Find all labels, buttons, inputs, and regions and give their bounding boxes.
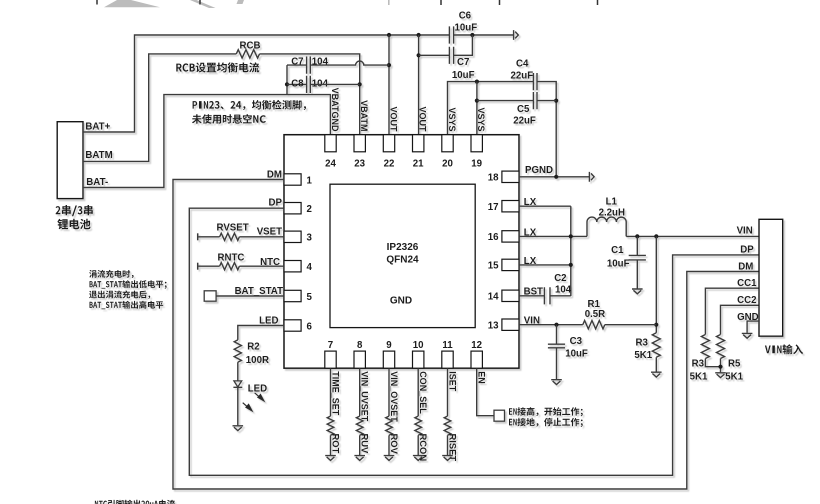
ground (PGND) [589, 172, 594, 182]
wire C3 bottom to ground [556, 348, 558, 379]
wire RCB to pin23 VBATM [260, 54, 360, 135]
wire C1 top [636, 236, 638, 255]
capacitor C1 10uF [629, 255, 646, 260]
svg-text:C1: C1 [611, 245, 624, 256]
node C6/C7 right junction [470, 33, 474, 37]
resistor R5 5K1 (CC2) [717, 335, 725, 359]
svg-text:ROV: ROV [389, 434, 400, 455]
wire pin6 LED down to R2 [238, 326, 284, 340]
svg-text:RNTC: RNTC [218, 253, 245, 264]
wire pin9 down [388, 368, 390, 416]
terminal RVSET left [197, 233, 199, 240]
wire L1 to VIN connector [626, 235, 759, 237]
resistor ROT [327, 416, 334, 435]
pin 22 box [383, 135, 394, 152]
wire R3 to ground [655, 357, 657, 371]
ground (VOUT decoupling) [514, 30, 519, 40]
svg-text:RUV: RUV [360, 434, 371, 455]
wire RNTC left segment [198, 265, 219, 267]
svg-text:R2: R2 [247, 342, 259, 353]
pin 24 box [325, 135, 336, 152]
wire RCON to ground [417, 435, 419, 455]
VIN input connector J2 [759, 219, 783, 336]
svg-text:C4: C4 [516, 59, 529, 70]
ground (RUV) [354, 456, 365, 461]
pin 23 box [354, 135, 365, 152]
wire ROT to ground [330, 435, 332, 455]
wire LX bus vertical [570, 206, 572, 296]
svg-text:R3: R3 [692, 358, 705, 369]
wire pin14 BST to C2 [519, 295, 544, 297]
ground (R3) [651, 372, 662, 377]
node VOUT junction at pin22 riser [387, 33, 391, 37]
capacitor C3 10uF [548, 344, 565, 348]
svg-text:BATM: BATM [85, 150, 112, 161]
pin 17 box [502, 201, 519, 212]
pin 15 box [502, 259, 519, 270]
ground (CC divider) [715, 373, 726, 378]
wire BAT- riser to pin24 VBATGND [83, 95, 330, 188]
capacitor C8 104 [307, 76, 311, 93]
svg-text:VSYS: VSYS [447, 107, 457, 131]
wire pin22 VOUT riser [388, 35, 390, 135]
resistor RNTC [220, 263, 240, 270]
ground (RCON) [413, 456, 424, 461]
wire pin8 down [359, 368, 361, 416]
wire VIN feed down to R1 node [655, 236, 657, 332]
svg-text:BAT+: BAT+ [85, 122, 110, 133]
node C3 tap [554, 323, 558, 327]
node pin19 riser top junction [475, 80, 479, 84]
label 锂电池 [57, 219, 90, 230]
svg-text:11: 11 [442, 340, 453, 351]
svg-text:C3: C3 [570, 336, 583, 347]
node VIN node junction [654, 323, 658, 327]
node C5 tap on pin19 riser [475, 99, 479, 103]
wire pin7 down [330, 368, 332, 416]
resistor R3 5K1 (CC1) [701, 335, 709, 359]
svg-text:ISET: ISET [448, 371, 458, 392]
wire C8 left [287, 83, 307, 85]
svg-text:TIME_SET: TIME_SET [331, 371, 341, 416]
svg-text:20: 20 [442, 159, 453, 170]
wire C2 right up to LX bus [550, 295, 571, 297]
capacitor C4 22uF [533, 73, 537, 90]
ground (C1) [632, 289, 643, 294]
capacitor C2 104 [544, 287, 550, 304]
svg-text:C2: C2 [554, 273, 566, 284]
svg-text:QFN24: QFN24 [386, 255, 419, 266]
svg-text:BAT_STAT: BAT_STAT [235, 286, 284, 297]
capacitor C5 22uF [533, 92, 537, 109]
wire pin21 VOUT riser [418, 35, 420, 135]
wire pin16 LX to L1 [519, 235, 587, 237]
svg-text:EN: EN [477, 371, 487, 384]
wire pin17 LX [519, 205, 571, 207]
wire C3 top [556, 325, 558, 345]
svg-text:22: 22 [384, 159, 395, 170]
wire RNTC to pin4 NTC [239, 265, 284, 267]
svg-text:RCON: RCON [418, 434, 429, 462]
ground (ROT) [325, 456, 336, 461]
wire R1 to VIN node [605, 324, 657, 326]
svg-text:19: 19 [471, 159, 482, 170]
svg-text:10uF: 10uF [565, 348, 588, 359]
wire DP loop pin2 to VIN connector DP [189, 208, 759, 475]
wire R3 bottom to common [705, 359, 720, 367]
svg-text:CC1: CC1 [737, 278, 757, 289]
wire RVSET left segment [198, 236, 219, 238]
pin 16 box [502, 231, 519, 242]
note PIN23、24，均衡检测脚， line1 [193, 100, 306, 110]
svg-text:IP2326: IP2326 [387, 242, 419, 253]
svg-text:2: 2 [307, 204, 312, 215]
svg-text:VBATGND: VBATGND [330, 88, 340, 132]
resistor R2 100R [234, 340, 241, 362]
svg-text:CC2: CC2 [737, 295, 756, 306]
svg-text:VIN: VIN [737, 225, 753, 236]
svg-text:22uF: 22uF [513, 116, 536, 127]
svg-text:23: 23 [354, 159, 365, 170]
svg-text:VOUT: VOUT [389, 106, 399, 132]
svg-text:R5: R5 [728, 358, 741, 369]
pin 11 box [442, 351, 453, 368]
svg-text:7: 7 [328, 340, 333, 351]
svg-text:C7: C7 [291, 56, 303, 67]
wire pin12 EN down to terminal [477, 368, 494, 416]
pin 4 box [284, 261, 301, 272]
wire C7/C8 left vertical to VBATGND [286, 65, 288, 95]
svg-text:10uF: 10uF [455, 23, 478, 34]
wire C6 right to ground [454, 34, 514, 36]
svg-text:BST: BST [524, 287, 543, 298]
pin 21 box [413, 135, 424, 152]
note 未使用时悬空NC line2 [192, 114, 266, 124]
note EN接地，停止工作； line2 [509, 418, 583, 427]
svg-text:5K1: 5K1 [690, 371, 708, 382]
node VIN feed tap [654, 234, 658, 238]
svg-text:0.5R: 0.5R [585, 309, 605, 320]
svg-text:VOUT: VOUT [418, 106, 428, 132]
note NTC引脚输出20uA电流 (cut off) [95, 500, 175, 504]
svg-text:2.2uH: 2.2uH [599, 208, 625, 219]
svg-text:LX: LX [524, 227, 537, 238]
svg-text:22uF: 22uF [511, 71, 534, 82]
svg-text:C5: C5 [517, 104, 530, 115]
svg-text:CON_SEL: CON_SEL [418, 371, 428, 414]
svg-text:10: 10 [413, 340, 424, 351]
svg-text:C7: C7 [457, 57, 469, 68]
wire C5 right [537, 100, 556, 102]
wire R5 bottom to ground [720, 359, 722, 373]
wire C5 left from pin19 riser [477, 100, 534, 102]
LED diode D1 [233, 381, 242, 387]
wire RUV to ground [359, 435, 361, 455]
pin 19 box [471, 135, 482, 152]
pin 9 box [383, 351, 394, 368]
pin 1 box [284, 174, 301, 185]
svg-text:4: 4 [307, 262, 313, 273]
note 退出涓流充电后， line3 [89, 291, 150, 299]
wire C4 right down to PGND rail [537, 82, 556, 177]
svg-text:18: 18 [488, 173, 499, 184]
pin 14 box [502, 290, 519, 301]
resistor RISET [444, 416, 451, 435]
ground (connector GND) [742, 333, 753, 338]
svg-text:24: 24 [325, 159, 336, 170]
op-amp U1 IP2326 QFN24 outline [284, 135, 519, 369]
node LX junction pin15 [569, 263, 573, 267]
ground (LED) [233, 426, 244, 431]
capacitor C7 10uF [449, 47, 453, 64]
node C8 tap on pin23 riser [358, 82, 362, 86]
wire R2 to LED diode [237, 362, 239, 381]
ground (RISET) [442, 456, 453, 461]
pin 10 box [413, 351, 424, 368]
svg-text:BAT-: BAT- [86, 177, 108, 188]
svg-text:VSET: VSET [257, 227, 282, 238]
svg-text:LX: LX [524, 256, 537, 267]
resistor RUV [356, 416, 363, 435]
wire BATM riser to RCB [83, 54, 236, 161]
node C5 right junction [554, 99, 558, 103]
pin 12 box [471, 351, 482, 368]
wire DM loop pin1 to VIN connector DM [173, 180, 759, 490]
pin 7 box [325, 351, 336, 368]
svg-text:ROT: ROT [331, 434, 342, 454]
pin 3 box [284, 231, 301, 242]
note BAT_STAT输出高电平 line4 [90, 301, 164, 309]
wire RVSET to pin3 VSET [239, 236, 284, 238]
svg-text:L1: L1 [606, 196, 618, 207]
svg-text:17: 17 [488, 202, 499, 213]
wire C7(104) right with hop over pin23 riser [310, 61, 389, 65]
svg-text:C8: C8 [291, 79, 304, 90]
svg-text:5K1: 5K1 [634, 350, 652, 361]
svg-text:NTC: NTC [260, 257, 280, 268]
capacitor C6 10uF [449, 26, 453, 43]
svg-text:RVSET: RVSET [217, 222, 249, 233]
wire pin19 VSYS riser [476, 82, 478, 135]
svg-text:DM: DM [738, 261, 753, 272]
svg-text:6: 6 [307, 321, 313, 332]
svg-text:104: 104 [555, 285, 572, 296]
resistor R3 5K1 (VIN) [652, 333, 660, 357]
resistor ROV [386, 416, 393, 435]
svg-text:14: 14 [488, 292, 499, 303]
svg-text:13: 13 [488, 321, 499, 332]
svg-text:21: 21 [413, 159, 424, 170]
node C8 left junction [285, 82, 289, 86]
svg-text:R3: R3 [636, 337, 649, 348]
node PGND junction with C4/C5 return [554, 175, 558, 179]
wire ROV to ground [388, 435, 390, 455]
resistor RVSET [220, 233, 240, 240]
svg-text:LX: LX [524, 197, 537, 208]
svg-text:8: 8 [357, 340, 363, 351]
svg-text:12: 12 [471, 340, 482, 351]
svg-text:VIN_OVSET: VIN_OVSET [389, 371, 399, 422]
wire pin18 PGND to ground [519, 176, 589, 178]
wire pin15 LX [519, 264, 571, 266]
wire pin20 VSYS riser to C4 [448, 82, 534, 135]
svg-text:VSYS: VSYS [476, 107, 486, 131]
resistor RCON [415, 416, 422, 435]
note BAT_STAT输出低电平； line2 [90, 280, 167, 289]
pin 20 box [442, 135, 453, 152]
LED arrows [243, 393, 264, 411]
terminal RNTC left [197, 263, 199, 270]
svg-text:DP: DP [740, 244, 754, 255]
wire pin13 VIN to R1 [519, 324, 583, 326]
ground (ROV) [384, 456, 395, 461]
node LX junction pin16 [569, 234, 573, 238]
svg-text:DM: DM [267, 170, 282, 181]
svg-text:9: 9 [386, 340, 392, 351]
svg-text:LED: LED [259, 316, 278, 327]
svg-text:VIN_UVSET: VIN_UVSET [360, 371, 370, 422]
wire C1 bottom to ground [636, 260, 638, 289]
svg-text:1: 1 [307, 175, 313, 186]
svg-text:PGND: PGND [525, 165, 553, 176]
capacitor C7 104 [307, 57, 311, 74]
battery connector J1 (2串/3串 锂电池) [57, 122, 83, 199]
pin 2 box [284, 203, 301, 214]
wire C8 right to pin23 riser [310, 83, 359, 85]
label RCB设置均衡电流 [176, 62, 259, 72]
svg-text:GND: GND [390, 296, 412, 307]
resistor R1 0.5R [583, 321, 605, 329]
pin 5 box [284, 290, 301, 301]
svg-text:10uF: 10uF [452, 70, 475, 81]
svg-text:16: 16 [488, 232, 499, 243]
svg-text:10uF: 10uF [607, 258, 630, 269]
terminal EN square [494, 410, 505, 421]
wire C7 left from pin21 riser [419, 54, 450, 56]
wire C7 right riser to ground rail [454, 35, 473, 55]
wire C7(104) left [287, 64, 307, 66]
svg-text:5: 5 [307, 292, 313, 303]
decor ruler ticks [97, 0, 598, 5]
node R3/R5 ground junction [718, 365, 722, 369]
svg-text:C6: C6 [459, 11, 472, 22]
svg-text:100R: 100R [246, 355, 269, 366]
wire pin10 down [417, 368, 419, 416]
ground (C3) [551, 380, 562, 385]
wire LED to ground [237, 387, 239, 425]
pin 8 box [354, 351, 365, 368]
wire GND stub [747, 321, 759, 333]
svg-text:VIN: VIN [524, 315, 540, 326]
note 涓流充电时， line1 [89, 270, 134, 278]
IP2326 inner GND pad [330, 184, 475, 327]
wire CC1 from connector down to R3 [705, 288, 759, 334]
wire pin11 down [447, 368, 449, 416]
inductor L1 2.2uH [587, 217, 626, 236]
svg-text:RCB: RCB [240, 40, 261, 51]
note EN接高，开始工作； line1 [509, 407, 583, 416]
svg-text:RISET: RISET [448, 434, 459, 462]
pin 13 box [502, 319, 519, 330]
decor watermark [104, 0, 390, 8]
pin 18 box [502, 171, 519, 182]
node C7(10uF) tap on pin21 riser [417, 53, 421, 57]
node C1 tap [635, 234, 639, 238]
label VIN输入 [765, 344, 803, 354]
terminal BAT_STAT square [204, 291, 216, 301]
wire BAT+ to top rail to C6 (VOUT net) [83, 35, 449, 132]
svg-text:VBATM: VBATM [359, 100, 369, 131]
resistor RCB [236, 50, 259, 58]
svg-text:5K1: 5K1 [725, 371, 743, 382]
svg-text:3: 3 [307, 233, 313, 244]
svg-text:DP: DP [269, 198, 283, 209]
wire RISET to ground [447, 435, 449, 455]
node C7 tap on pin22 riser [387, 63, 391, 67]
wire BAT_STAT to pin5 [216, 295, 284, 297]
label 2串/3串 [56, 205, 93, 216]
wire CC2 from connector down to R5 [721, 305, 760, 334]
svg-text:LED: LED [248, 383, 267, 394]
node VOUT junction at pin21 riser [417, 33, 421, 37]
pin 6 box [284, 320, 301, 331]
svg-text:15: 15 [488, 261, 499, 272]
